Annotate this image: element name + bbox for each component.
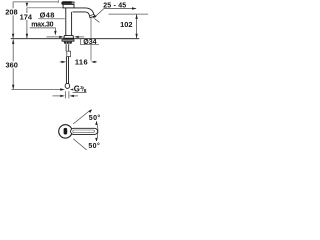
spout	[73, 8, 95, 18]
swing upper radial arrow	[89, 109, 93, 113]
arc lower arrow	[95, 138, 97, 142]
svg-text:360: 360	[6, 61, 18, 70]
extension line top of faucet	[13, 1, 58, 3]
svg-text:174: 174	[20, 12, 33, 21]
dimension 208 line	[12, 2, 14, 38]
label 360	[4, 61, 19, 68]
102 top arrow	[135, 14, 137, 19]
svg-text:116: 116	[75, 57, 88, 66]
leader overshoot segment	[94, 19, 99, 23]
swing lower radial line	[73, 139, 90, 153]
svg-text:Ø34: Ø34	[83, 39, 96, 46]
label 208	[5, 8, 20, 15]
countertop line	[11, 38, 140, 40]
top view lever hub	[64, 128, 68, 135]
D48 leader underline	[38, 18, 65, 20]
svg-text:208: 208	[5, 8, 17, 17]
25-45 right arrow	[132, 7, 137, 9]
spout projection line	[90, 18, 92, 61]
leader to spout outlet	[96, 9, 105, 17]
base	[64, 36, 74, 39]
G3/8 underline	[73, 92, 87, 94]
max.30 leader arrow	[54, 31, 56, 36]
extension line end tick	[57, 0, 59, 3]
cartridge housing	[63, 4, 74, 8]
dimension 116 right arrow	[91, 61, 96, 63]
102 bottom arrow	[135, 34, 137, 39]
threaded shank	[65, 44, 67, 51]
arc upper arrow	[95, 121, 97, 125]
dimension 102 line	[136, 14, 138, 38]
hose diameter dimension	[53, 95, 61, 97]
swing upper radial line	[73, 110, 90, 124]
25-45 dimension line	[104, 8, 136, 10]
label 174	[19, 13, 33, 20]
faucet body column	[66, 9, 72, 35]
label 50 upper	[88, 113, 102, 120]
hose ferrule	[67, 51, 71, 56]
top view pivot circle	[59, 125, 72, 138]
dimension 360 line	[12, 39, 14, 89]
mounting nut	[64, 42, 73, 44]
svg-text:Ø48: Ø48	[40, 10, 55, 19]
360 top arrow	[12, 39, 14, 44]
dimension 208 bottom arrow	[12, 34, 14, 39]
hose end reference line	[12, 89, 62, 91]
dimension 116 left arrow	[60, 61, 62, 63]
top view lever arm	[71, 128, 98, 134]
label 50 lower	[87, 141, 101, 148]
arrow to fitting right	[70, 89, 73, 91]
top view lever inner line	[73, 130, 95, 133]
svg-text:50°: 50°	[88, 142, 100, 150]
D34 underline + tick	[81, 39, 99, 45]
360 bottom arrow	[12, 85, 14, 90]
svg-text:8: 8	[84, 88, 87, 94]
swing arc	[96, 122, 98, 142]
D48 left arrow	[47, 36, 60, 38]
outlet level reference line	[109, 13, 149, 15]
extension line spout top	[27, 7, 65, 9]
svg-text:102: 102	[120, 20, 132, 29]
max.30 underline leader	[30, 28, 56, 31]
dimension 174 top arrow	[26, 3, 28, 8]
svg-text:50°: 50°	[89, 114, 101, 122]
D48 right arrow	[74, 36, 79, 38]
arrow to fitting left	[60, 88, 65, 90]
dimension 174 line	[26, 8, 28, 39]
hose end fitting G3/8	[65, 83, 70, 88]
aerator line	[90, 14, 94, 15]
svg-text:max.30: max.30	[31, 21, 53, 28]
mounting washer	[62, 39, 75, 41]
supply hose	[65, 57, 67, 84]
leader arrow at outlet	[93, 15, 97, 19]
label 102	[119, 21, 134, 28]
label D34	[81, 40, 99, 45]
dimension 174 bottom arrow	[26, 34, 28, 39]
lever handle (side view)	[61, 1, 72, 5]
